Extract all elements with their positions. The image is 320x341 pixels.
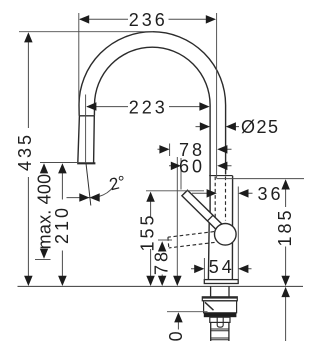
svg-text:60: 60 — [179, 156, 205, 176]
svg-text:0: 0 — [166, 328, 186, 341]
svg-text:223: 223 — [129, 97, 168, 117]
svg-text:236: 236 — [129, 10, 168, 30]
svg-text:435: 435 — [15, 132, 35, 171]
svg-text:210: 210 — [52, 205, 72, 244]
svg-text:78: 78 — [152, 249, 172, 275]
svg-text:54: 54 — [209, 257, 235, 277]
svg-text:185: 185 — [275, 207, 295, 246]
svg-text:Ø25: Ø25 — [241, 117, 280, 137]
svg-text:max. 400: max. 400 — [34, 174, 54, 250]
svg-text:36: 36 — [258, 184, 284, 204]
svg-text:155: 155 — [137, 212, 157, 251]
